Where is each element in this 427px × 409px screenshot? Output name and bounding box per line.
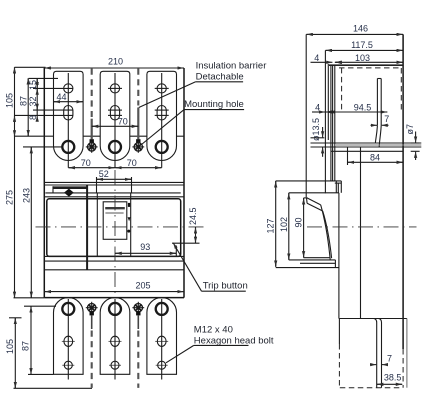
svg-text:210: 210	[108, 57, 123, 67]
svg-text:87: 87	[20, 341, 30, 351]
svg-text:7: 7	[384, 114, 389, 124]
svg-text:8: 8	[28, 115, 38, 120]
svg-text:243: 243	[22, 188, 32, 203]
svg-text:84: 84	[370, 152, 380, 162]
svg-text:102: 102	[279, 217, 289, 232]
svg-text:70: 70	[127, 158, 137, 168]
svg-text:M12 x 40: M12 x 40	[194, 324, 233, 335]
svg-text:7: 7	[387, 353, 392, 363]
svg-text:Trip button: Trip button	[203, 280, 248, 291]
svg-text:24.5: 24.5	[188, 207, 198, 225]
svg-text:70: 70	[118, 116, 128, 126]
svg-text:70: 70	[81, 158, 91, 168]
svg-text:117.5: 117.5	[351, 40, 373, 50]
svg-text:ø7: ø7	[405, 124, 415, 135]
svg-text:4: 4	[315, 103, 320, 113]
svg-text:32: 32	[28, 96, 38, 106]
svg-text:146: 146	[353, 23, 368, 33]
svg-text:103: 103	[355, 53, 370, 63]
svg-text:205: 205	[135, 281, 150, 291]
svg-text:105: 105	[5, 339, 15, 354]
svg-text:93: 93	[140, 242, 150, 252]
svg-text:Insulation barrier: Insulation barrier	[196, 61, 267, 72]
svg-text:127: 127	[265, 218, 275, 233]
svg-text:15: 15	[28, 80, 38, 90]
svg-text:38.5: 38.5	[384, 373, 402, 383]
svg-text:Mounting hole: Mounting hole	[184, 99, 244, 110]
svg-text:94.5: 94.5	[354, 103, 372, 113]
svg-text:Detachable: Detachable	[196, 72, 244, 83]
svg-text:87: 87	[19, 96, 29, 106]
svg-text:90: 90	[294, 217, 304, 227]
svg-text:4: 4	[314, 53, 319, 63]
svg-text:44: 44	[56, 92, 66, 102]
svg-text:105: 105	[5, 93, 15, 108]
svg-text:52: 52	[99, 169, 109, 179]
svg-text:275: 275	[4, 190, 14, 205]
